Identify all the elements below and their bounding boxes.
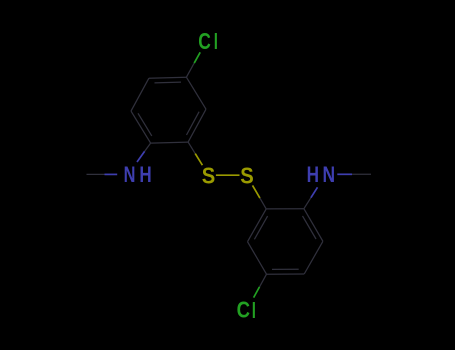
- wire ring1 bottom-left edge: [131, 111, 151, 143]
- wire ring2 inner double-bond top-right: [303, 216, 317, 239]
- bond C-N2 (blue half): [311, 187, 318, 197]
- wire ring2 top edge: [266, 208, 304, 210]
- bond C-S1 (gray half): [188, 142, 195, 154]
- wire ring2 top-right edge: [304, 209, 323, 242]
- wire ring1 bottom-right edge: [188, 109, 206, 142]
- svg-text:l: l: [252, 298, 256, 323]
- wire ring2 inner double-bond bottom: [272, 268, 299, 270]
- bond C-N2 (gray half): [304, 198, 311, 209]
- svg-text:S: S: [240, 162, 254, 188]
- wire ring1 inner double-bond top: [155, 81, 182, 84]
- wire ring1 top-left edge: [131, 78, 149, 111]
- bond C-Cl2 (green half): [254, 287, 260, 298]
- svg-text:S: S: [202, 162, 216, 188]
- bond C-S1 (olive half): [195, 154, 202, 166]
- svg-text:N: N: [323, 162, 336, 187]
- svg-text:C: C: [237, 297, 250, 323]
- wire ring1 inner double-bond bottom-left: [138, 113, 152, 136]
- bond CH3-N1 (blue half): [105, 173, 118, 175]
- wire ring2 bottom-right edge: [304, 241, 323, 274]
- bond CH3-N1 (gray half): [87, 173, 105, 175]
- wire ring1 inner double-bond bottom-right: [187, 112, 200, 135]
- svg-text:H: H: [139, 162, 151, 187]
- bond CH3-N2 (blue half): [337, 173, 352, 175]
- bond S1-S2 disulfide: [216, 174, 240, 176]
- wire ring2 bottom-left edge: [248, 242, 267, 275]
- benzene ring 2 (right): [248, 209, 323, 275]
- svg-text:H: H: [307, 162, 319, 187]
- svg-text:l: l: [214, 29, 218, 54]
- bond C-N1 (blue half): [137, 151, 145, 162]
- bond C-Cl2 (gray half): [260, 274, 267, 287]
- bond C-Cl1 (gray half): [186, 63, 194, 77]
- wire ring1 top-right edge: [186, 77, 206, 109]
- wire ring1 top edge: [149, 77, 187, 78]
- wire ring2 top-left edge: [248, 209, 267, 242]
- bond C-S2 (olive half): [253, 185, 260, 198]
- wire ring2 bottom edge: [267, 273, 305, 275]
- wire ring2 inner double-bond top-left: [254, 216, 267, 239]
- bond C-S2 (gray half): [260, 198, 266, 209]
- bond CH3-N2 (gray half): [352, 173, 371, 175]
- svg-text:N: N: [124, 162, 136, 187]
- bond C-Cl1 (green half): [194, 52, 200, 63]
- benzene ring 1 (left): [131, 77, 206, 143]
- wire ring1 bottom edge: [151, 142, 189, 143]
- svg-text:C: C: [198, 28, 211, 54]
- bond C-N1 (gray half): [145, 143, 151, 151]
